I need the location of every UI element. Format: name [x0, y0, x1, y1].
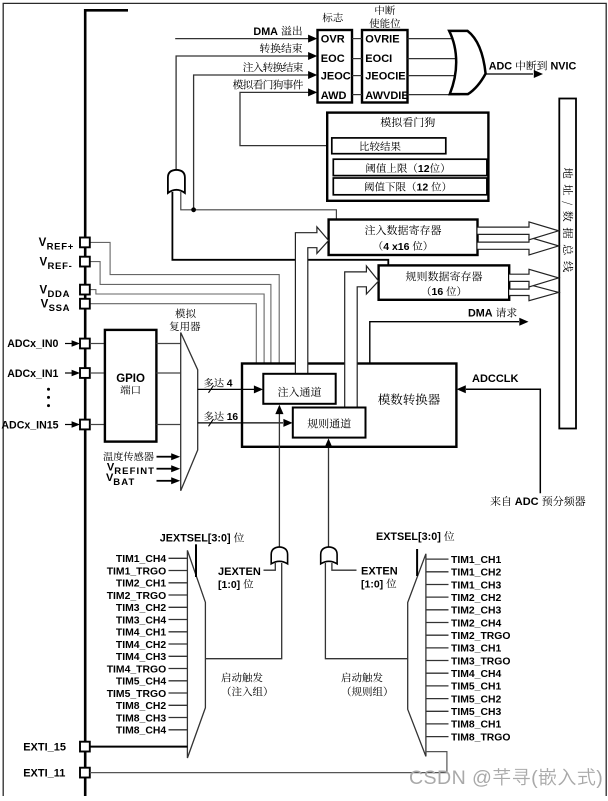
junction JEOC tap [191, 207, 196, 212]
label injected conversion end [243, 62, 253, 72]
label flags header [323, 13, 333, 23]
svg-text:TIM4_CH1: TIM4_CH1 [116, 628, 166, 639]
wire up-to-4 into injected channels [198, 388, 254, 390]
wire regular EOC thick from regular data register to OR gate [172, 192, 388, 265]
svg-text:ADCCLK: ADCCLK [472, 373, 518, 385]
wire trigger input TIM2_TRGO [169, 594, 188, 596]
right trigger mux trapezoid [408, 554, 426, 757]
injected data register box [329, 220, 478, 256]
GPIO port box [105, 330, 156, 442]
label from ADC prescaler [490, 496, 500, 506]
wire trigger input TIM3_TRGO [426, 660, 449, 662]
svg-text:REF+: REF+ [47, 242, 74, 253]
svg-text:4: 4 [227, 379, 233, 390]
wire EXTI_11 to right mux [90, 752, 447, 773]
svg-text:OVR: OVR [321, 34, 345, 46]
svg-text:ADC: ADC [515, 496, 542, 508]
ellipsis dots between input pins [47, 388, 50, 391]
svg-text:16: 16 [227, 412, 239, 423]
svg-text:JEOC: JEOC [321, 71, 351, 83]
svg-text:EXTI_15: EXTI_15 [23, 741, 66, 753]
wire trigger input TIM8_TRGO [426, 736, 449, 738]
svg-text:CSDN @: CSDN @ [409, 767, 492, 789]
wire stubs between flag and enable boxes [352, 38, 362, 40]
wire VREFINT to mux [157, 468, 173, 470]
upper threshold box 12bit [333, 159, 487, 175]
ADC converter box [242, 364, 456, 447]
svg-text:TIM1_CH3: TIM1_CH3 [451, 580, 501, 591]
svg-text:(: ( [531, 767, 538, 789]
wire temperature sensor to mux [157, 456, 173, 458]
analog multiplexer trapezoid [181, 333, 198, 491]
svg-text:TIM2_CH1: TIM2_CH1 [116, 579, 166, 590]
svg-text:12: 12 [418, 163, 430, 175]
wire OR gate output to NVIC [486, 73, 533, 75]
wire EXTI_15 to left mux [90, 746, 188, 748]
wire trigger input TIM3_CH1 [426, 647, 449, 649]
svg-text:V: V [40, 256, 48, 268]
address data bus bar [559, 99, 576, 429]
svg-text:TIM3_TRGO: TIM3_TRGO [451, 656, 510, 667]
svg-text:TIM5_CH1: TIM5_CH1 [451, 682, 501, 693]
svg-text:TIM5_TRGO: TIM5_TRGO [107, 689, 166, 700]
svg-text:GPIO: GPIO [116, 373, 145, 385]
wire trigger input TIM4_CH4 [426, 672, 449, 674]
svg-text:TIM4_CH4: TIM4_CH4 [451, 669, 501, 680]
label analog watchdog event [233, 80, 243, 90]
OR gate U1 ADC interrupt [449, 31, 485, 94]
wire VBAT to mux [157, 480, 173, 482]
svg-text:TIM2_CH2: TIM2_CH2 [451, 593, 501, 604]
svg-text:EOC: EOC [321, 53, 345, 65]
pin VREF+ [80, 238, 90, 248]
svg-text:TIM8_CH2: TIM8_CH2 [116, 701, 166, 712]
svg-text:ADCx_IN0: ADCx_IN0 [7, 338, 58, 350]
wire JEXTEN bits into gate [264, 563, 276, 570]
svg-text:DMA: DMA [468, 308, 495, 320]
svg-text:TIM4_CH3: TIM4_CH3 [116, 652, 166, 663]
wire trigger input TIM3_CH4 [169, 619, 188, 621]
svg-text:JEXTEN: JEXTEN [218, 566, 261, 578]
svg-text:JEXTSEL[3:0]: JEXTSEL[3:0] [160, 533, 234, 545]
wire VREF- to ADC [90, 262, 271, 363]
wire VREF+ to ADC [90, 242, 279, 362]
lower threshold box 12bit [333, 178, 487, 195]
svg-text:[1:0]: [1:0] [361, 578, 386, 590]
svg-text:TIM1_CH1: TIM1_CH1 [451, 555, 501, 566]
svg-text:EXTI_11: EXTI_11 [23, 768, 65, 780]
label temperature sensor [103, 452, 113, 461]
wire EOC signal from OR gate to EOC flag [176, 56, 309, 170]
wire trigger input TIM1_CH3 [426, 584, 449, 586]
svg-text:TIM5_CH2: TIM5_CH2 [451, 694, 501, 705]
wire trigger input TIM5_TRGO [169, 692, 188, 694]
wire injected trigger to injected channels [278, 412, 280, 548]
wire DMA request [370, 322, 519, 363]
wires GPIO to analog mux [156, 343, 180, 345]
svg-text:TIM8_CH3: TIM8_CH3 [116, 713, 166, 724]
wires pins to GPIO box [90, 343, 105, 345]
svg-text:TIM1_CH4: TIM1_CH4 [116, 554, 166, 565]
svg-text:TIM2_TRGO: TIM2_TRGO [107, 591, 166, 602]
wire EXTEN bits into gate [332, 563, 357, 570]
svg-text:TIM2_CH3: TIM2_CH3 [451, 606, 501, 617]
wire trigger input TIM8_CH1 [426, 723, 449, 725]
wire JEOC signal to JEOC flag [194, 75, 309, 210]
pin VDDA [80, 285, 90, 295]
svg-text:TIM1_CH2: TIM1_CH2 [451, 568, 501, 579]
label conversion end [260, 43, 270, 53]
wire trigger input TIM1_CH4 [169, 557, 188, 559]
svg-text:V: V [39, 237, 47, 249]
svg-text:EOCI: EOCI [365, 53, 392, 65]
svg-text:ADCx_IN1: ADCx_IN1 [7, 368, 58, 380]
wire trigger input TIM2_CH1 [169, 582, 188, 584]
wire trigger input TIM2_TRGO [426, 634, 449, 636]
wire regular trigger to regular channels [328, 446, 330, 547]
svg-text:TIM2_CH4: TIM2_CH4 [451, 618, 501, 629]
analog watchdog box [327, 113, 488, 201]
svg-text:TIM5_CH4: TIM5_CH4 [116, 677, 166, 688]
svg-text:SSA: SSA [49, 303, 71, 314]
wire trigger input TIM8_CH2 [169, 704, 188, 706]
svg-text:ADC: ADC [489, 61, 515, 73]
pin VREF- [80, 257, 90, 267]
svg-text:V: V [40, 284, 48, 296]
pin VSSA [80, 299, 90, 309]
hollow arrow regular register to bus 1 [509, 269, 558, 287]
wire trigger input TIM2_CH3 [426, 609, 449, 611]
wire injected EOC to OR gate and JEOC tap [181, 192, 337, 219]
left trigger mux trapezoid [187, 550, 205, 758]
svg-text:DMA: DMA [253, 26, 280, 38]
wire trigger input TIM5_CH1 [426, 685, 449, 687]
svg-text:V: V [41, 298, 49, 310]
svg-text:DDA: DDA [48, 289, 71, 300]
wire main left bus vertical with top corner [85, 10, 128, 796]
wire trigger input TIM4_CH2 [169, 643, 188, 645]
injected channels box [263, 374, 335, 404]
svg-text:4 x16: 4 x16 [383, 241, 412, 253]
AND gate EXTEN [321, 547, 337, 564]
svg-text:TIM8_CH1: TIM8_CH1 [451, 720, 501, 731]
label up to 16 [204, 412, 213, 421]
wire trigger input TIM5_CH4 [169, 680, 188, 682]
hollow arrow injected channels to injected data register [295, 227, 328, 374]
flag register box OVR EOC JEOC AWD [318, 30, 353, 103]
wires enable box to OR gate inputs [408, 38, 461, 40]
wire trigger input TIM1_CH1 [426, 558, 449, 560]
svg-text:OVRIE: OVRIE [365, 34, 399, 46]
wire DMA overflow signal to OVR [175, 38, 309, 40]
wire trigger input TIM4_TRGO [169, 668, 188, 670]
label up to 4 [204, 378, 213, 387]
svg-text:JEOCIE: JEOCIE [365, 71, 405, 83]
label start trigger injected group [221, 673, 230, 683]
svg-text:AWVDIE: AWVDIE [365, 90, 408, 102]
svg-text:TIM5_CH3: TIM5_CH3 [451, 707, 501, 718]
svg-text:TIM3_CH4: TIM3_CH4 [116, 615, 166, 626]
EXTSEL select line [416, 549, 418, 576]
svg-text:TIM3_CH2: TIM3_CH2 [116, 603, 166, 614]
svg-text:12: 12 [417, 182, 432, 194]
wire trigger input TIM1_TRGO [169, 570, 188, 572]
compare result box [332, 138, 446, 154]
regular channels box [293, 408, 366, 438]
wire trigger input TIM5_CH2 [426, 698, 449, 700]
wire trigger input TIM1_CH2 [426, 571, 449, 573]
wire trigger input TIM2_CH2 [426, 596, 449, 598]
wire AWD event to AWD flag [240, 92, 332, 145]
wire up-to-16 into regular channels [198, 422, 283, 424]
wire trigger input TIM4_CH1 [169, 631, 188, 633]
label interrupt enable header [375, 5, 384, 15]
wire trigger input TIM2_CH4 [426, 622, 449, 624]
svg-text:EXTSEL[3:0]: EXTSEL[3:0] [376, 531, 444, 543]
svg-text:ADCx_IN15: ADCx_IN15 [1, 419, 58, 431]
svg-text:TIM3_CH1: TIM3_CH1 [451, 644, 501, 655]
svg-text:NVIC: NVIC [548, 61, 577, 73]
wire VDDA to ADC [90, 290, 264, 363]
label analog multiplexer [175, 309, 185, 319]
hollow arrow injected register to bus 1 [478, 222, 559, 240]
interrupt enable box OVRIE EOCI JEOCIE AWVDIE [362, 30, 408, 103]
JEXTSEL select line [195, 544, 197, 577]
wire VSSA to ADC [90, 304, 256, 363]
svg-text:TIM1_TRGO: TIM1_TRGO [107, 566, 166, 577]
hollow arrow regular channels to regular data register [345, 266, 379, 408]
svg-text:EXTEN: EXTEN [361, 565, 398, 577]
AND gate JEXTEN [271, 547, 287, 564]
wire left mux output to JEXTEN gate [205, 563, 281, 659]
wire trigger input TIM4_CH3 [169, 655, 188, 657]
svg-text:TIM8_CH4: TIM8_CH4 [116, 726, 166, 737]
hollow arrow regular register to bus 2 [509, 285, 558, 301]
svg-text:[1:0]: [1:0] [218, 579, 243, 591]
svg-text:TIM4_TRGO: TIM4_TRGO [107, 664, 166, 675]
svg-text:AWD: AWD [321, 90, 347, 102]
svg-text:16: 16 [432, 286, 447, 298]
wire trigger input TIM5_CH3 [426, 710, 449, 712]
wire trigger input TIM3_CH2 [169, 606, 188, 608]
label start trigger regular group [341, 673, 350, 683]
svg-text:REFINT: REFINT [114, 466, 155, 477]
svg-text:TIM2_TRGO: TIM2_TRGO [451, 631, 510, 642]
svg-text:REF-: REF- [48, 261, 73, 272]
regular data register box [379, 265, 510, 299]
svg-text:): ) [596, 767, 603, 789]
wire trigger input TIM8_CH3 [169, 717, 188, 719]
OR gate U2 EOC combine [168, 170, 185, 193]
svg-text:TIM8_TRGO: TIM8_TRGO [451, 732, 510, 743]
hollow arrow injected register to bus 2 [478, 237, 559, 255]
wire trigger input TIM8_CH4 [169, 729, 188, 731]
svg-text:BAT: BAT [113, 477, 135, 488]
wire ADCCLK into ADC [466, 389, 540, 493]
wire right mux output to EXTEN gate [325, 563, 407, 659]
svg-text:TIM4_CH2: TIM4_CH2 [116, 640, 166, 651]
